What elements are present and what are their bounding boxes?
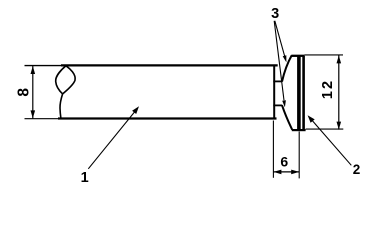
- dimension 12: dimension line with arrows: [337, 55, 342, 129]
- head/washer bottom edge: [292, 129, 306, 131]
- svg-text:8: 8: [16, 88, 33, 97]
- head/washer top edge: [291, 55, 304, 57]
- rod end face (shoulder): [273, 65, 275, 119]
- leader from 3 to bottom flare curve: [274, 21, 286, 108]
- leader from 2 to washer: [308, 115, 352, 165]
- rod item 1: bottom outline line: [25, 118, 277, 120]
- svg-text:3: 3: [271, 6, 279, 22]
- flare rim face line: [297, 56, 301, 129]
- svg-text:6: 6: [280, 153, 288, 169]
- dimension 12: top extension line: [305, 54, 344, 56]
- flared end, top curve (item 3): [282, 55, 292, 81]
- dimension 6: dimension line with arrows: [273, 170, 299, 175]
- dimension 6: right extension line: [298, 132, 300, 179]
- svg-text:2: 2: [353, 162, 361, 177]
- leader from 3 to top flare curve: [275, 21, 287, 63]
- leader from 1 into rod: [88, 106, 139, 169]
- neck bottom line: [273, 104, 282, 106]
- rod item 1: top outline line: [25, 64, 278, 66]
- dimension 12: bottom extension line: [306, 128, 344, 130]
- flared end, bottom curve (item 3): [282, 105, 292, 130]
- dimension 6: left extension line: [272, 121, 274, 178]
- svg-text:1: 1: [81, 170, 89, 186]
- neck top line: [273, 80, 282, 82]
- break line (freehand) at left end of rod: [56, 66, 75, 119]
- svg-text:12: 12: [320, 79, 336, 99]
- washer (item 2) right face line: [302, 56, 305, 129]
- dimension 8: dimension line with arrows: [31, 66, 36, 118]
